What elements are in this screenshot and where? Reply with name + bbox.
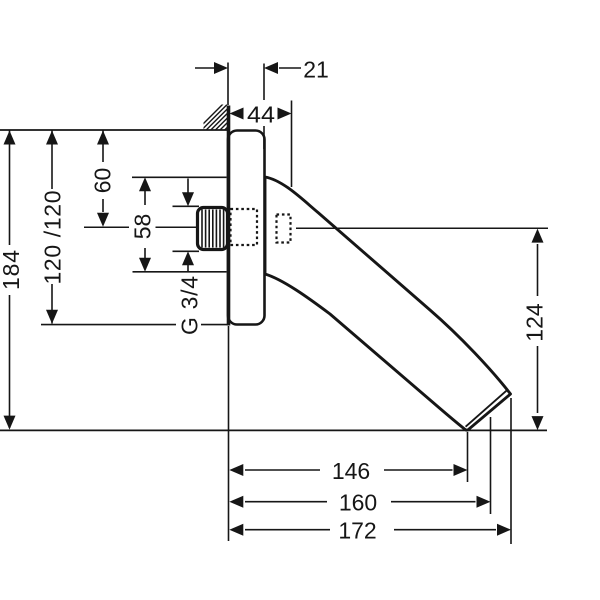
- bottom dims left extension line: [228, 326, 230, 541]
- outlet level reference line: [0, 429, 547, 431]
- svg-text:172: 172: [338, 518, 376, 544]
- dimension 160: [245, 417, 491, 514]
- svg-text:124: 124: [522, 303, 548, 342]
- centerline: [84, 227, 548, 228]
- wall face line: [227, 106, 231, 326]
- dimension 60: [102, 130, 104, 212]
- wall hatching: [196, 103, 252, 131]
- dimension G 3/4: [173, 179, 200, 272]
- dimension 58: [132, 177, 227, 271]
- dimension 146: [245, 432, 468, 482]
- svg-text:44: 44: [247, 102, 275, 128]
- dimension 124: [537, 244, 539, 413]
- svg-text:60: 60: [90, 168, 116, 194]
- dimension 21: [195, 63, 301, 150]
- spout outlet inner rim line: [466, 390, 508, 427]
- svg-text:184: 184: [0, 250, 24, 290]
- dimension 184: [9, 130, 11, 428]
- dimension 172: [245, 398, 511, 544]
- svg-text:120 /120: 120 /120: [40, 191, 66, 285]
- threaded pipe G3/4: [198, 208, 228, 250]
- hidden cartridge dashed rectangle: [231, 209, 258, 245]
- svg-text:160: 160: [339, 490, 377, 516]
- plate bottom extension line: [41, 324, 228, 326]
- dimension 44: [291, 101, 293, 188]
- svg-text:G 3/4: G 3/4: [177, 276, 203, 335]
- svg-text:58: 58: [130, 214, 156, 240]
- svg-text:146: 146: [332, 458, 370, 484]
- hidden aerator dashed rectangle: [277, 215, 291, 243]
- top reference line: [0, 129, 227, 131]
- escutcheon plate: [228, 131, 265, 325]
- spout body: [265, 177, 511, 430]
- svg-text:21: 21: [303, 57, 329, 83]
- dimension 120/120: [51, 130, 53, 324]
